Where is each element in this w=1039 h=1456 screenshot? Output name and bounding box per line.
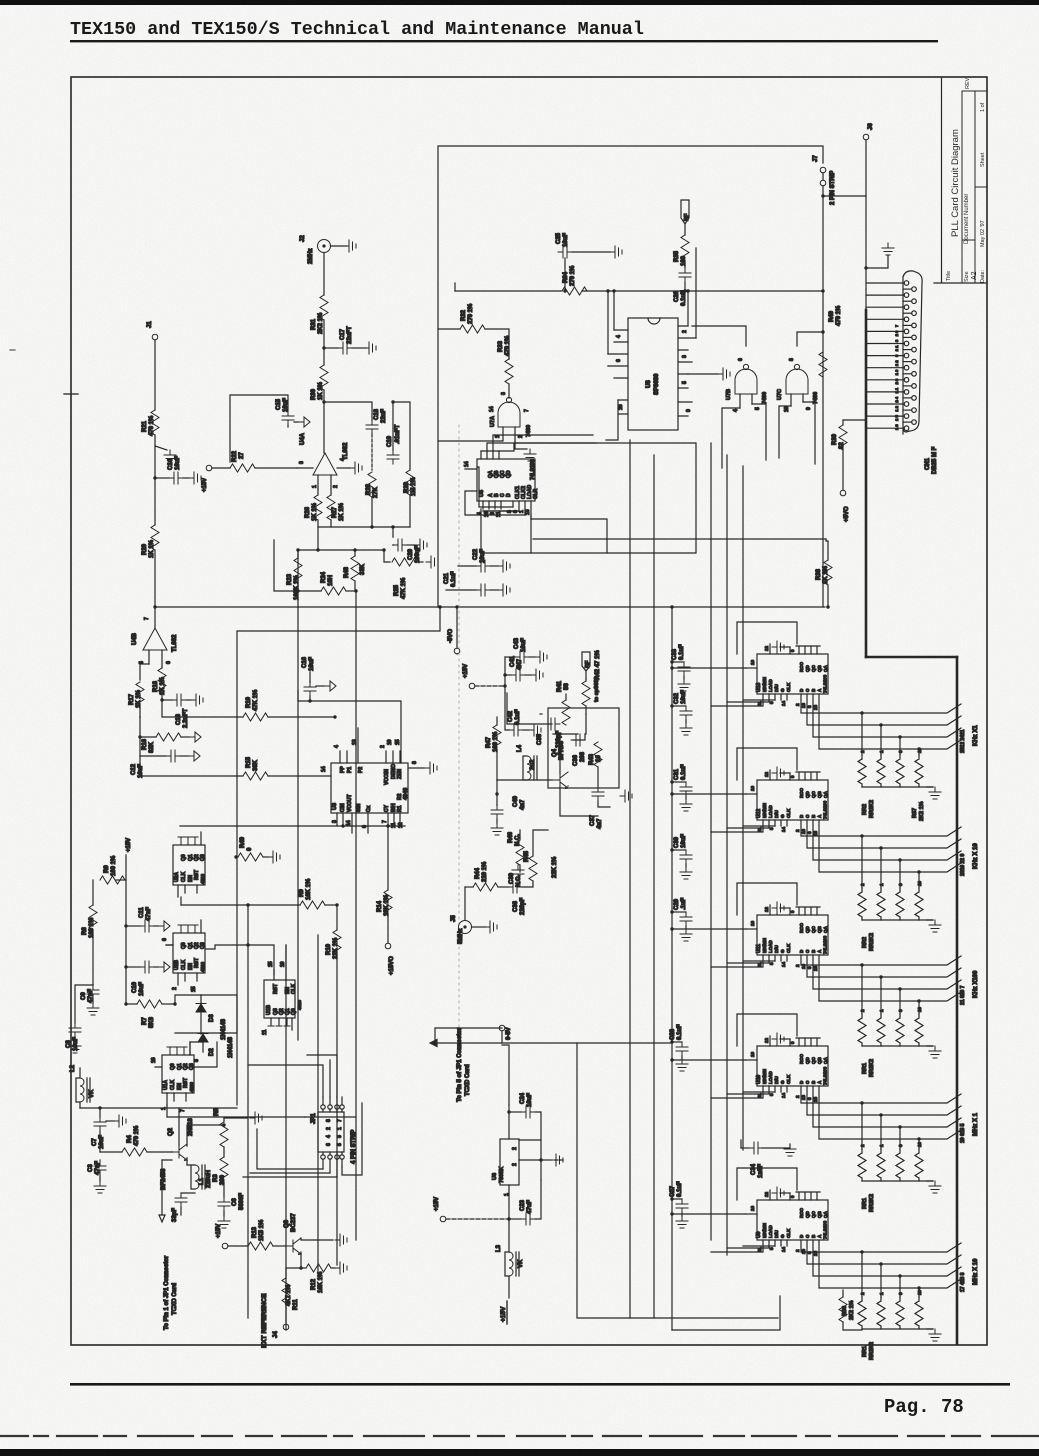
resistor network RR1 RR2K2 xyxy=(858,1149,933,1181)
wire to left arrow xyxy=(435,1028,502,1043)
resistor R40 470 on right edge xyxy=(819,352,827,377)
scan tick left border xyxy=(64,393,78,395)
U8 right pin stubs xyxy=(678,326,696,416)
inductor L2 xyxy=(80,1078,84,1102)
nand gate U7A xyxy=(498,397,520,427)
wire bundle vertical xyxy=(865,289,867,310)
rail y945 U2B to U1B xyxy=(166,944,181,946)
diode D3 xyxy=(200,995,202,1003)
capacitor C37 4n7 xyxy=(597,767,599,787)
ground at U6 xyxy=(541,1159,551,1161)
capacitor C19 xyxy=(392,402,394,450)
resistor R31 xyxy=(320,295,328,320)
U8 wires to C26 node xyxy=(687,291,689,326)
title block left line xyxy=(934,77,987,283)
capacitor C13 xyxy=(162,699,172,701)
capacitor C25 xyxy=(564,258,566,291)
JP1 bottom pins xyxy=(321,1155,325,1159)
wire J2 to R31 xyxy=(323,253,325,296)
ic U9 74LS190 xyxy=(746,1190,828,1256)
U7A input stubs xyxy=(438,427,515,441)
ic U6 7805K xyxy=(500,1139,519,1185)
wire bus x711 xyxy=(710,443,712,1240)
ground right of R21 xyxy=(155,446,167,450)
line y717 with R19 xyxy=(162,700,243,717)
capacitor C18 xyxy=(366,420,378,434)
node for C25 xyxy=(563,289,566,292)
header underline xyxy=(70,40,938,42)
resistor R7 5K6 xyxy=(126,1003,137,1005)
output bundle U12 xyxy=(801,820,961,872)
capacitor C23 47uF xyxy=(508,1185,510,1220)
ground pin 8 of U3 xyxy=(408,767,424,769)
terminal J6 xyxy=(823,140,866,196)
rail y291 xyxy=(455,290,823,292)
ground at CN1 top xyxy=(866,256,888,268)
to pin 1 arrow and label xyxy=(161,1160,163,1215)
wire bus x248 xyxy=(247,905,249,1318)
wire U1A bottom rail xyxy=(167,1116,305,1118)
wire top pin to J7 net xyxy=(865,196,867,289)
U3 top pin stubs xyxy=(340,728,400,763)
rail y329 R32 xyxy=(438,328,460,330)
capacitor C39 NC xyxy=(512,865,524,879)
node C17 tap xyxy=(322,346,325,349)
output bundle U11 xyxy=(801,955,961,1001)
CN1 pins and wires xyxy=(866,281,916,431)
resistor R38 1K xyxy=(826,539,828,560)
output bundle U9 xyxy=(801,1240,961,1288)
scan crease xyxy=(458,425,460,1055)
op-amp U4B xyxy=(143,628,167,650)
rail y905 with R9 xyxy=(181,904,300,906)
wire flag to R35 xyxy=(684,224,686,235)
terminal +15V xyxy=(206,465,212,471)
terminal +15VO xyxy=(385,943,391,949)
resistor R10 22K vertical xyxy=(336,905,338,930)
connector CN1 DB25 body xyxy=(903,271,922,434)
capacitor C33 0.1uF xyxy=(672,661,684,663)
resistor R23 100K xyxy=(297,550,299,558)
resistor R30 xyxy=(320,365,328,390)
Q3 collector to ground xyxy=(301,1238,333,1240)
ic U1A 4520 xyxy=(162,1055,194,1093)
ic U2A 4518 xyxy=(173,845,205,885)
ic U13 74LS190 xyxy=(746,644,828,710)
ground above U10 xyxy=(780,1038,790,1040)
terminal +5VO xyxy=(840,490,846,496)
line y776 with R15 to U3 xyxy=(140,756,243,776)
wire C16 rail to U3 xyxy=(298,701,401,763)
JP1 top pins xyxy=(321,1105,325,1109)
capacitor C14 xyxy=(155,477,169,479)
inductor L1 220uH xyxy=(186,1158,188,1165)
resistor R35 100 xyxy=(681,235,689,260)
resistor R16 82K xyxy=(139,717,141,737)
ic U8 SP8680 xyxy=(628,318,678,430)
right vertical bus xyxy=(956,657,959,1344)
capacitor C38 226pF xyxy=(498,886,508,888)
rail y591 with R24 xyxy=(274,540,321,591)
title block divider lines xyxy=(962,91,987,283)
diode D2 xyxy=(198,1034,208,1043)
capacitor C32 10uF xyxy=(672,705,686,707)
feed wire U12 pin16 xyxy=(672,793,746,795)
capacitor C10 10uF xyxy=(126,966,140,968)
resistor R25 47K xyxy=(384,550,390,562)
loop wire above U12 xyxy=(737,748,797,780)
capacitor C6 5600F xyxy=(223,1182,225,1197)
rail y1318 xyxy=(577,1043,778,1318)
Q2 collector wire up xyxy=(179,1108,187,1146)
wire bus x630 xyxy=(629,440,631,1318)
capacitor C29 .1uF xyxy=(672,911,686,913)
wire bus x727 xyxy=(726,455,728,1255)
feedback rail xyxy=(318,526,410,528)
pin 3 stub xyxy=(297,467,313,469)
capacitor C24 xyxy=(508,1105,510,1139)
U8 ground xyxy=(688,373,718,375)
diode wires xyxy=(175,995,203,1052)
ground above U11 xyxy=(780,907,790,909)
capacitor C17 xyxy=(324,347,338,349)
ground at C17 xyxy=(352,347,366,349)
U1B top stubs xyxy=(274,945,286,980)
terminal +15V left xyxy=(440,1216,446,1222)
terminal J1 xyxy=(152,334,158,340)
Q3 emitter node xyxy=(300,1252,302,1268)
transistor Q3 BC237 xyxy=(285,1238,301,1255)
pin 7 xyxy=(154,607,156,628)
rail y631 xyxy=(237,607,440,631)
inductor L4 2u2 xyxy=(527,756,531,780)
capacitor C27 0.1uF xyxy=(672,1198,682,1200)
rail y1040 xyxy=(435,1042,672,1044)
wire R7 left to +15 rail xyxy=(125,1003,127,1005)
outer drawing border xyxy=(71,77,987,1345)
capacitor C8 10uF xyxy=(75,985,93,1023)
wire bus x672 xyxy=(671,607,673,1330)
resistor R47 100 1% xyxy=(496,717,498,725)
U8 left wires xyxy=(608,291,614,354)
wire feedback rail down to y550 xyxy=(317,527,319,550)
wire bus x318 xyxy=(317,935,319,1275)
resistor R34 270 xyxy=(562,287,587,295)
Q4 emitter/collector wires xyxy=(553,714,598,816)
pins 1,2 below xyxy=(318,475,331,489)
wire bus x356 xyxy=(355,591,357,1240)
capacitor C42 0.1uF xyxy=(505,693,509,730)
connector J2 BNC xyxy=(318,240,331,253)
capacitor C26 xyxy=(679,268,691,282)
capacitor C15 xyxy=(230,395,288,462)
JP1 wiring loops xyxy=(248,1055,337,1097)
feed wires U10 bottom pins xyxy=(711,1092,775,1098)
capacitor C31 0.1uF xyxy=(672,781,686,783)
rail y1117 extension xyxy=(305,1116,356,1118)
capacitor C12 xyxy=(139,737,141,756)
ic U12 74LS190 xyxy=(746,770,828,836)
resistor R20 xyxy=(151,525,159,550)
resistor R33 470 xyxy=(505,359,513,384)
feed wire U10 pin16 xyxy=(672,1059,746,1061)
resistor R4 470 1% xyxy=(100,1151,122,1153)
resistor R46 NC xyxy=(519,838,521,840)
feed wires U11 bottom pins xyxy=(711,961,775,967)
rail db25 to R38 xyxy=(533,538,826,540)
wire R22 to opamp xyxy=(255,467,297,469)
terminal -5VO xyxy=(454,648,460,654)
capacitor C7 xyxy=(99,1108,101,1117)
RF output flag xyxy=(681,200,689,224)
capacitor C9 47nF xyxy=(92,984,94,986)
output bundle U13 xyxy=(801,694,961,749)
ic U11 74LS190 xyxy=(746,905,828,971)
ground right of R5 xyxy=(224,1117,248,1119)
wires U8 to U5 loop xyxy=(607,365,609,367)
resistor network RR2 RR2K2 xyxy=(858,755,933,787)
inductor L3 xyxy=(508,1219,510,1252)
resistor R5 xyxy=(220,1122,228,1147)
wire to C18 feedback xyxy=(324,402,372,420)
terminal +15V mid xyxy=(469,683,475,689)
rail y1330 xyxy=(672,1296,780,1330)
resistor R21 xyxy=(151,410,159,435)
resistor R41 56 xyxy=(565,694,567,700)
resistor R44 220 1% xyxy=(465,886,473,888)
resistor R14 10K xyxy=(387,826,389,890)
rail y553 xyxy=(481,552,531,554)
resistor R12 10K xyxy=(301,1267,306,1269)
wire R31-R30 xyxy=(323,320,325,365)
transistor Q2 xyxy=(171,1144,187,1161)
capacitor C34 1n5F xyxy=(741,1147,749,1149)
resistor R42 47 1% xyxy=(585,679,587,681)
loop wire above U9 xyxy=(737,1168,797,1200)
wire U3 pins to rail y826 xyxy=(180,825,405,827)
wire bus x298 xyxy=(297,550,299,1040)
nand gate U7C xyxy=(786,364,808,394)
wire bus x654 xyxy=(653,455,655,1318)
resistor network RR1 RR2K2 xyxy=(858,1014,933,1046)
wire U2A pin to R9 rail xyxy=(180,897,182,905)
output bundle U10 xyxy=(801,1086,961,1139)
pins 5,6 xyxy=(149,650,162,668)
resistor R49 0 xyxy=(234,855,237,858)
rail y1108 xyxy=(80,1107,237,1109)
feed wires U12 bottom pins xyxy=(711,826,775,832)
capacitor C21 xyxy=(446,589,476,591)
U1B bottom stubs xyxy=(268,1018,274,1026)
wire R17 to line y717 xyxy=(139,716,141,718)
resistor R27 xyxy=(327,495,335,520)
wire bus x237 xyxy=(236,632,238,1105)
capacitor C35 230pF xyxy=(540,713,542,715)
resistor R11 4K7 xyxy=(286,1268,301,1278)
ground at C14 xyxy=(183,477,189,479)
terminal +15V xyxy=(222,1243,228,1249)
dashed trimmer line C18 xyxy=(371,434,373,470)
Q2 emitter to R3 node xyxy=(172,1125,224,1158)
connector J5 BNC xyxy=(464,887,466,920)
inner box outline xyxy=(438,146,823,607)
ic U2B 4518 xyxy=(173,933,205,973)
nand gate U7B xyxy=(735,364,757,394)
U5 pins xyxy=(465,451,499,469)
ic U5 74LS196 xyxy=(477,459,535,501)
resistor R22 27 xyxy=(212,467,230,469)
ic U10 74LS190 xyxy=(746,1036,828,1102)
U8 left pin stubs xyxy=(608,330,628,414)
resistor R17 xyxy=(140,664,149,680)
op-amp U4A xyxy=(313,453,337,475)
resistor R13 1K5 xyxy=(228,1245,248,1247)
wire U1A outputs to diodes xyxy=(190,1042,203,1055)
U2A bottom stubs xyxy=(178,885,197,897)
wire J7 down right edge xyxy=(822,196,824,607)
feed wire U13 pin16 xyxy=(672,667,746,669)
resistor R43 10 xyxy=(594,742,602,767)
capacitor C11 47nF xyxy=(126,925,140,927)
capacitor C30 10uF xyxy=(672,849,686,851)
capacitor C43 xyxy=(505,656,515,658)
loop wire above U11 xyxy=(737,883,797,915)
resistor R29 1M xyxy=(393,402,410,470)
capacitor C20 100uF xyxy=(392,527,394,537)
loop wire above U13 xyxy=(737,622,797,654)
terminal -5V out xyxy=(499,1025,505,1031)
capacitor 33pF xyxy=(180,1195,182,1197)
ground at J2 xyxy=(331,245,347,247)
ground above U9 xyxy=(780,1192,790,1194)
capacitor C3 47nF xyxy=(99,1159,101,1161)
resistor network RR2 RR2K2 xyxy=(858,888,933,920)
main bus wire y607 xyxy=(155,606,825,608)
gate interconnect wires xyxy=(692,326,746,346)
resistor R39 22 xyxy=(842,420,844,425)
ground above U12 xyxy=(780,772,790,774)
wire U5 clk from U7A xyxy=(508,359,510,398)
capacitor C22 xyxy=(458,565,476,567)
ic U1B 4520 xyxy=(264,980,295,1018)
feed wire U9 pin16 xyxy=(672,1213,746,1215)
U6 output pin wire xyxy=(519,1159,541,1161)
U3 bottom pin stubs xyxy=(337,813,400,833)
connector J7 2 pin strip xyxy=(820,167,826,173)
resistor R26 xyxy=(314,495,322,520)
amp box xyxy=(548,708,619,788)
wire R20 to bus xyxy=(154,550,156,607)
feed wire U11 pin16 xyxy=(672,928,746,930)
bottom scan dashes xyxy=(0,1435,1039,1437)
wire bus x286 xyxy=(285,945,287,1330)
capacitor C40 4n7 xyxy=(496,780,498,805)
rail y550 xyxy=(298,549,384,551)
wire bundle corner to right bus xyxy=(866,656,957,659)
resistor R28 27K xyxy=(368,472,376,497)
capacitor C28 0.1uF xyxy=(672,1041,682,1043)
feed wires U13 bottom pins xyxy=(711,700,775,706)
pin 4 stub to ground xyxy=(337,467,350,469)
resistor network RR1 RR2K2 xyxy=(858,1297,933,1329)
resistor R48 33K xyxy=(354,550,356,556)
footer rule xyxy=(70,1383,1010,1386)
top scan bar xyxy=(0,0,1039,5)
resistor R9b 100 xyxy=(116,879,126,881)
wire bus x743 xyxy=(742,466,744,1150)
resistor R3 390 xyxy=(220,1157,228,1182)
capacitor C41 4n7 xyxy=(504,657,506,693)
loop wire above U10 xyxy=(737,1014,797,1046)
capacitor C16 xyxy=(309,672,311,682)
resistor R6 100 vertical xyxy=(92,880,94,905)
ic U3 4046 xyxy=(331,763,408,813)
U2A top pin stubs xyxy=(178,837,184,845)
resistor R45 xyxy=(529,856,537,881)
RF to sp8680 flag xyxy=(582,652,590,671)
bottom scan bar xyxy=(0,1449,1039,1456)
U5 feedback loops xyxy=(477,467,513,507)
connector JP1 xyxy=(318,1112,344,1152)
feed wires U9 bottom pins xyxy=(711,1246,775,1252)
ground above U13 xyxy=(780,646,790,648)
resistor R18 xyxy=(158,668,166,693)
terminal J4 xyxy=(283,1324,289,1330)
transistor Q4 BFR96 xyxy=(552,772,568,789)
wire R21 to R20 xyxy=(154,435,156,525)
wire J1 to R21 xyxy=(154,340,156,410)
wire R30 to opamp output node xyxy=(323,390,325,453)
capacitor C36 xyxy=(571,734,585,746)
